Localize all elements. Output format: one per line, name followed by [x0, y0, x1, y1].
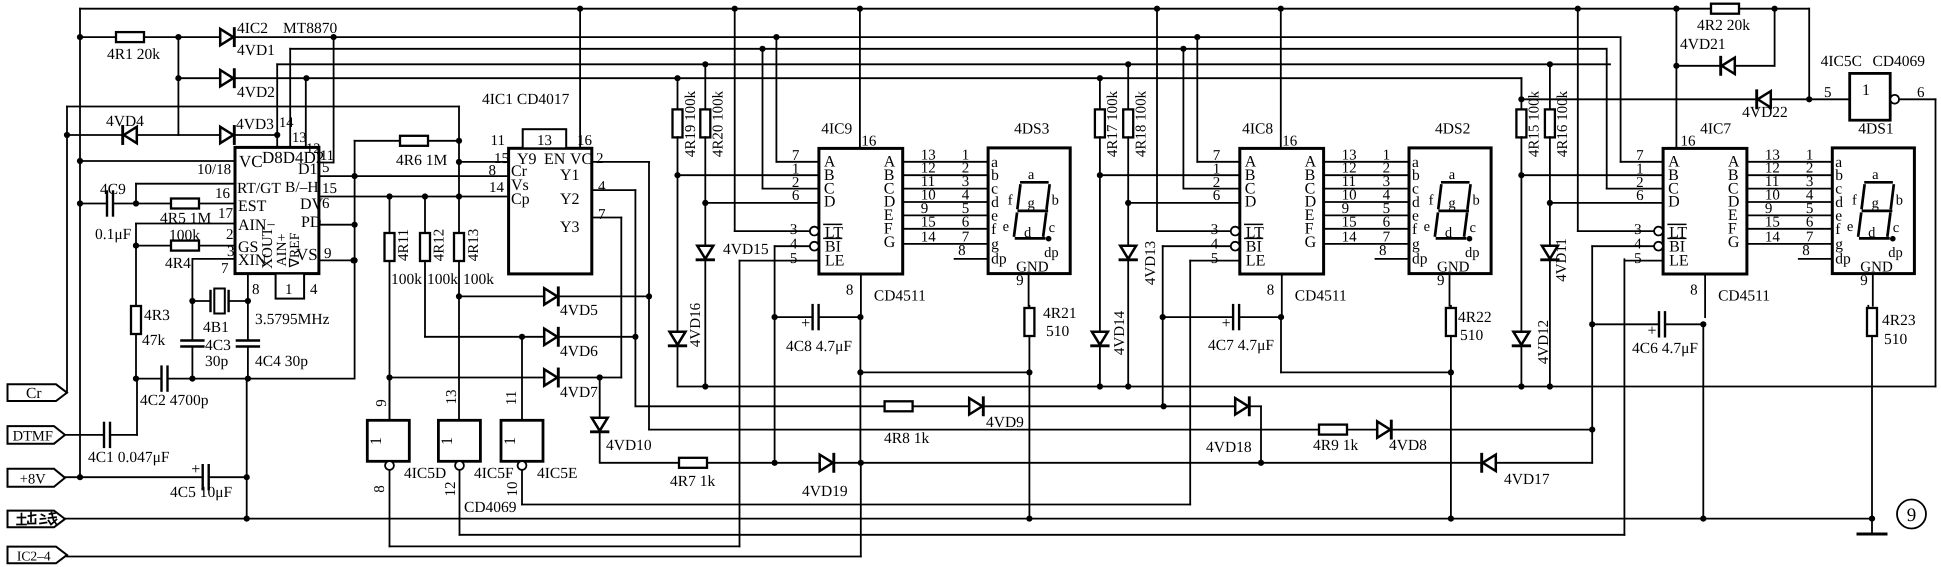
wire Cr vertical x=67 — [66, 107, 68, 393]
svg-text:B/–H: B/–H — [285, 179, 319, 196]
diode 4VD4 — [124, 127, 137, 143]
svg-text:4R17 100k: 4R17 100k — [1105, 90, 1121, 157]
svg-text:100k: 100k — [169, 227, 200, 244]
wire BI col bottom segment (4IC7) — [1591, 430, 1593, 463]
svg-text:6: 6 — [962, 214, 970, 230]
svg-text:0.1μF: 0.1μF — [95, 226, 132, 243]
svg-text:14: 14 — [1765, 229, 1781, 245]
svg-text:1: 1 — [502, 437, 519, 445]
wire column x=459 — [458, 107, 460, 197]
svg-text:4VD4: 4VD4 — [106, 113, 144, 130]
4IC7 LT BI bubbles — [1654, 227, 1663, 236]
wire bus line L1 (VCC rail, y=8.7) — [80, 8, 1809, 10]
resistor 4R2 — [1711, 4, 1739, 14]
resistor 4R11 — [389, 197, 391, 234]
4DS2 GND pin9 wire — [1449, 274, 1451, 306]
wire y=462.8 line — [601, 462, 820, 464]
svg-text:a: a — [1449, 167, 1456, 183]
svg-text:+8V: +8V — [20, 471, 46, 487]
svg-text:4VD10: 4VD10 — [606, 437, 652, 454]
svg-text:4DS2: 4DS2 — [1435, 121, 1470, 138]
svg-text:LE: LE — [1669, 253, 1689, 270]
svg-text:13: 13 — [444, 390, 460, 405]
4IC8 VC riser pin16 — [1280, 9, 1282, 149]
svg-text:4R5 1M: 4R5 1M — [160, 210, 211, 227]
wire 4VD3/4VD4 row y=135 — [67, 134, 123, 136]
4IC7 dp stub pin8 — [1799, 258, 1833, 260]
wire 4C7 line — [1160, 314, 1166, 320]
svg-text:4R9 1k: 4R9 1k — [1313, 437, 1358, 454]
wire 4IC5C output — [1899, 98, 1935, 100]
svg-text:8: 8 — [372, 485, 388, 493]
wire y=106.5 line — [67, 106, 459, 108]
svg-text:+: + — [801, 315, 810, 332]
svg-text:dp: dp — [1465, 245, 1480, 261]
svg-text:7: 7 — [598, 207, 606, 223]
svg-text:4C4 30p: 4C4 30p — [255, 353, 308, 370]
resistor 4R18 column — [1127, 64, 1129, 109]
svg-text:8: 8 — [846, 283, 854, 299]
4IC7 VC riser pin16 — [1675, 9, 1677, 149]
diode 4VD7 — [390, 377, 545, 379]
svg-text:15: 15 — [322, 181, 337, 197]
svg-text:Cp: Cp — [511, 191, 530, 208]
4DS3 7-segment digit — [1021, 181, 1047, 184]
svg-text:dp: dp — [1044, 245, 1059, 261]
op-amp 4IC8 CD4511 chip body — [1240, 148, 1324, 274]
svg-text:DV: DV — [300, 196, 324, 213]
wire Cr pin15 wire — [459, 161, 509, 163]
wire oscillator/VS ground line y=378.6 — [136, 378, 161, 380]
capacitor 4C4 — [247, 301, 249, 340]
4IC9 VC riser pin16 — [859, 9, 861, 149]
capacitor 4C3 — [191, 301, 193, 340]
capacitor 4C2 — [160, 367, 162, 391]
svg-text:4VD21: 4VD21 — [1680, 36, 1726, 53]
svg-text:c: c — [1893, 220, 1899, 236]
svg-text:4C6 4.7μF: 4C6 4.7μF — [1632, 340, 1698, 357]
capacitor 4C7 — [1232, 305, 1234, 329]
svg-text:16: 16 — [215, 186, 231, 202]
diode 4VD22 — [1758, 91, 1771, 107]
svg-text:4R19 100k: 4R19 100k — [683, 90, 699, 157]
svg-text:2: 2 — [226, 227, 234, 243]
svg-text:c: c — [1049, 220, 1055, 236]
svg-text:4VD2: 4VD2 — [237, 84, 275, 101]
4IC8 LT wire — [1157, 230, 1231, 232]
svg-text:9: 9 — [374, 399, 390, 407]
resistor 4R1 — [116, 32, 144, 42]
wire AIN- — [136, 223, 235, 225]
svg-text:3.5795MHz: 3.5795MHz — [255, 311, 330, 328]
svg-text:4VD14: 4VD14 — [1112, 310, 1128, 355]
inverter gate 4IC5D — [389, 378, 391, 421]
4IC9 LT wire — [735, 230, 810, 232]
svg-text:D1: D1 — [298, 161, 318, 178]
svg-text:6: 6 — [1636, 188, 1644, 204]
ground symbol — [1871, 519, 1873, 534]
wire line y=504.5 (to 4IC8 LE) — [522, 504, 1190, 506]
wire DTMF to 4C1 — [65, 434, 104, 436]
svg-text:4IC5E: 4IC5E — [537, 465, 577, 482]
4IC9 LT BI bubbles — [810, 227, 819, 236]
svg-text:13: 13 — [537, 133, 552, 149]
svg-text:CD4511: CD4511 — [1718, 288, 1770, 305]
4IC7 output wires to display — [1747, 161, 1832, 163]
svg-text:4R2 20k: 4R2 20k — [1697, 17, 1750, 34]
resistor 4R4 — [136, 245, 171, 247]
diode 4VD5 — [456, 293, 462, 299]
svg-text:4R3: 4R3 — [144, 307, 170, 324]
svg-text:100k: 100k — [427, 271, 458, 288]
wire IC2-4 line y=556.5 — [67, 556, 861, 558]
resistor 4R23 — [1867, 306, 1869, 308]
wire 4C5 ground column — [246, 379, 248, 519]
svg-text:2: 2 — [596, 151, 604, 167]
svg-text:b: b — [1052, 193, 1059, 209]
svg-text:4C7 4.7μF: 4C7 4.7μF — [1208, 337, 1274, 354]
wire bus line L2 (y=37.1) — [80, 36, 116, 38]
svg-text:8: 8 — [252, 282, 260, 298]
diode 4VD13 — [1127, 203, 1129, 246]
svg-text:G: G — [1728, 234, 1740, 251]
4IC8 output wires to display — [1324, 161, 1409, 163]
wire PD pin6 — [319, 224, 355, 226]
svg-text:9: 9 — [324, 246, 332, 262]
svg-text:8: 8 — [489, 163, 497, 179]
wire bus line L3 (y=48.8) — [290, 48, 1606, 50]
diode 4VD3 — [220, 127, 233, 143]
diode 4VD17 — [1483, 455, 1496, 471]
svg-text:4C3: 4C3 — [205, 337, 231, 354]
svg-text:IC2–4: IC2–4 — [17, 548, 51, 563]
svg-text:LE: LE — [1246, 253, 1266, 270]
svg-text:8: 8 — [958, 243, 966, 259]
svg-text:4R6 1M: 4R6 1M — [396, 152, 447, 169]
svg-text:4VD18: 4VD18 — [1206, 439, 1252, 456]
svg-text:4VD3: 4VD3 — [236, 116, 274, 133]
svg-text:4R20 100k: 4R20 100k — [711, 90, 727, 157]
capacitor 4C9 — [106, 192, 108, 216]
svg-text:5: 5 — [1634, 251, 1642, 267]
wire 4R8 line y=406.3 — [635, 405, 884, 407]
node IC2-4 input flag — [8, 547, 68, 564]
svg-text:G: G — [884, 234, 896, 251]
svg-text:17: 17 — [218, 206, 234, 222]
4IC8 BI wire — [1163, 245, 1231, 247]
4IC8 pin8 wire — [1281, 274, 1283, 317]
svg-text:4IC5F: 4IC5F — [474, 465, 514, 482]
svg-text:4VD6: 4VD6 — [560, 343, 598, 360]
svg-text:5: 5 — [790, 251, 798, 267]
svg-text:100k: 100k — [391, 271, 422, 288]
resistor 4R15 column — [1520, 78, 1522, 110]
svg-text:g: g — [1027, 196, 1034, 212]
wire rail y=386.5 — [678, 386, 1936, 388]
svg-text:15: 15 — [1765, 214, 1780, 230]
wire bus line L5 (y=78.2) — [178, 77, 221, 79]
wire 4IC5D output to y=546.4 — [389, 470, 391, 546]
svg-text:dp: dp — [1888, 245, 1903, 261]
wire L5 corner to 4R15 col — [1520, 78, 1522, 99]
diode 4VD14 — [1099, 175, 1101, 332]
svg-text:4VD19: 4VD19 — [802, 483, 848, 500]
svg-text:5: 5 — [1824, 85, 1832, 101]
wire 4IC5E output to y=504.5 — [521, 470, 523, 505]
svg-text:EST: EST — [238, 198, 267, 215]
op-amp 4IC1 CD4017 chip body — [509, 148, 592, 274]
resistor 4R21 — [1028, 306, 1030, 308]
svg-text:15: 15 — [921, 214, 936, 230]
wire +8V line to 4C5 — [80, 476, 203, 478]
svg-text:4VD13: 4VD13 — [1143, 241, 1159, 285]
svg-text:4VD16: 4VD16 — [688, 302, 704, 347]
wire ground bus y=518.6 — [65, 518, 1872, 520]
resistor 4R12 — [424, 197, 426, 234]
svg-text:8: 8 — [1690, 283, 1698, 299]
svg-text:14: 14 — [489, 180, 505, 196]
CD4017 VC riser x=580 — [579, 9, 581, 149]
4IC9 input wires A B C D — [776, 161, 819, 163]
wire line y=534.8 (to 4IC7 LE) — [460, 534, 1625, 536]
svg-text:b: b — [1473, 193, 1480, 209]
4IC7 input wires A B C D — [1621, 161, 1664, 163]
svg-text:4R7 1k: 4R7 1k — [670, 473, 715, 490]
svg-text:D: D — [1668, 194, 1680, 211]
svg-text:5: 5 — [1211, 251, 1219, 267]
capacitor 4C6 — [1658, 312, 1660, 336]
svg-text:9: 9 — [1860, 273, 1868, 289]
svg-text:b: b — [1896, 193, 1903, 209]
wire VS riser x=354.6 — [354, 260, 356, 378]
svg-text:d: d — [1024, 225, 1032, 241]
svg-text:e: e — [1424, 219, 1430, 235]
capacitor 4C8 — [811, 305, 813, 329]
wire +8V rail vertical x=80 — [79, 9, 81, 478]
wire D1 pin5 — [319, 175, 509, 177]
diode 4VD11 — [1549, 203, 1551, 246]
svg-text:g: g — [1448, 196, 1455, 212]
svg-text:4R23: 4R23 — [1882, 312, 1916, 329]
svg-text:4IC9: 4IC9 — [821, 121, 852, 138]
resistor 4R9 — [1319, 425, 1347, 435]
svg-text:1: 1 — [368, 437, 385, 445]
svg-text:VC: VC — [239, 152, 263, 171]
svg-text:4R22: 4R22 — [1458, 309, 1492, 326]
svg-text:4IC2: 4IC2 — [237, 20, 268, 37]
svg-text:LE: LE — [825, 253, 845, 270]
capacitor 4C5 — [201, 465, 203, 489]
svg-text:4IC7: 4IC7 — [1700, 121, 1731, 138]
node Cr input flag — [8, 384, 68, 401]
svg-text:13: 13 — [292, 130, 307, 146]
svg-text:6: 6 — [1383, 214, 1391, 230]
svg-text:4VD17: 4VD17 — [1504, 471, 1550, 488]
svg-text:d: d — [1445, 225, 1453, 241]
svg-text:4VD11: 4VD11 — [1554, 238, 1570, 282]
svg-text:4: 4 — [598, 179, 606, 195]
svg-text:4C9: 4C9 — [100, 181, 126, 198]
svg-text:dp: dp — [1412, 251, 1428, 268]
resistor 4R5 — [171, 199, 199, 209]
svg-text:4B1: 4B1 — [203, 319, 229, 336]
wire 4VD22 line — [1521, 98, 1757, 100]
svg-text:+: + — [191, 461, 200, 478]
svg-text:4C1 0.047μF: 4C1 0.047μF — [88, 449, 170, 466]
svg-text:4DS3: 4DS3 — [1014, 121, 1050, 138]
resistor 4R8 — [885, 401, 913, 411]
svg-text:4DS1: 4DS1 — [1858, 121, 1893, 138]
wire XOUT pin8 — [247, 274, 249, 301]
svg-text:f: f — [1852, 193, 1857, 209]
wire line y=546.4 (to 4IC9 LE) — [390, 545, 740, 547]
4IC7 LT wire — [1578, 230, 1654, 232]
svg-text:4R13: 4R13 — [466, 229, 482, 262]
svg-text:11: 11 — [504, 391, 520, 405]
svg-text:15: 15 — [494, 151, 509, 167]
svg-text:DTMF: DTMF — [13, 428, 53, 444]
svg-text:CD4511: CD4511 — [1295, 288, 1347, 305]
svg-text:Cr: Cr — [26, 385, 42, 402]
wire 4R9 line y=429.6 — [649, 429, 1319, 431]
MT8870 bottom notch pin 1 — [276, 274, 305, 299]
node +8V input flag — [8, 469, 66, 487]
svg-text:4R12: 4R12 — [432, 229, 448, 262]
diode 4VD16 — [677, 175, 679, 332]
svg-text:1: 1 — [1862, 82, 1870, 99]
svg-text:∇REF: ∇REF — [288, 232, 303, 268]
svg-text:4R4: 4R4 — [165, 255, 191, 272]
diode 4VD10 — [599, 378, 601, 419]
svg-text:16: 16 — [861, 134, 877, 150]
CD4017 output Y1 pin2 route — [592, 161, 649, 163]
svg-text:100k: 100k — [463, 271, 494, 288]
svg-text:6: 6 — [322, 196, 330, 212]
4IC8 input wires A B C D — [1197, 161, 1240, 163]
svg-text:d: d — [1868, 225, 1876, 241]
wire XIN — [192, 258, 235, 260]
svg-text:4VD22: 4VD22 — [1742, 104, 1788, 121]
svg-text:9: 9 — [1016, 273, 1024, 289]
svg-text:Y1: Y1 — [560, 167, 580, 184]
4DS1 7-segment digit — [1866, 181, 1892, 184]
svg-text:4IC1 CD4017: 4IC1 CD4017 — [482, 91, 570, 108]
svg-text:CD4069: CD4069 — [1873, 53, 1926, 70]
svg-text:510: 510 — [1460, 327, 1484, 344]
svg-text:PD: PD — [301, 214, 321, 231]
svg-text:c: c — [1470, 220, 1476, 236]
diode 4VD6 — [425, 336, 544, 338]
svg-text:VC: VC — [570, 151, 592, 168]
CD4017 output Y3 pin7 route — [592, 217, 622, 219]
4IC7 pin8 wire — [1704, 274, 1706, 317]
diode 4VD15 — [704, 203, 706, 246]
svg-text:4IC5D: 4IC5D — [404, 465, 446, 482]
4IC9 LE wire — [740, 260, 819, 262]
4IC9 pin8 wire — [860, 274, 862, 317]
wire L1 end corner to 4VD22 line — [1808, 9, 1810, 100]
crystal 4B1 — [189, 298, 195, 304]
svg-text:4: 4 — [310, 282, 318, 298]
op-amp 4IC7 CD4511 chip body — [1663, 148, 1747, 274]
4IC7 BI wire — [1592, 245, 1654, 247]
svg-text:4VD8: 4VD8 — [1389, 437, 1427, 454]
svg-text:D: D — [824, 194, 836, 211]
svg-text:510: 510 — [1046, 323, 1070, 340]
4IC7 LE wire — [1624, 260, 1663, 262]
wire 4IC5F output to y=534.8 — [459, 470, 461, 535]
wire vertical x=178.4 — [177, 37, 179, 135]
svg-text:14: 14 — [279, 115, 294, 131]
diode 4VD2 — [220, 70, 233, 86]
svg-text:+: + — [1648, 322, 1657, 339]
svg-text:8: 8 — [1802, 243, 1810, 259]
diode 4VD9 — [969, 398, 982, 414]
resistor 4R22 — [1450, 306, 1452, 308]
wire B/-H pin15 to Cp — [319, 196, 509, 198]
wire BI column to 429.6 — [1591, 324, 1593, 429]
node DTMF input flag — [8, 426, 66, 444]
wire Cp line dots (4R11-13 tops) — [386, 193, 392, 199]
svg-text:4VD7: 4VD7 — [560, 384, 598, 401]
svg-text:Y3: Y3 — [560, 219, 580, 236]
MT8870 top pin wires D8 D4 D2 — [276, 64, 278, 147]
svg-text:4R18 100k: 4R18 100k — [1134, 90, 1150, 157]
svg-text:+: + — [1222, 315, 1231, 332]
svg-text:14: 14 — [921, 229, 937, 245]
diode 4VD8 — [1377, 421, 1390, 437]
capacitor 4C1 — [103, 423, 105, 447]
svg-text:6: 6 — [1806, 214, 1814, 230]
svg-text:4R15 100k: 4R15 100k — [1527, 90, 1543, 157]
diode 4VD18 — [1235, 398, 1248, 414]
wire BI column to 406.3 — [1162, 317, 1164, 406]
svg-text:dp: dp — [991, 251, 1007, 268]
wire node column x=354.6 — [354, 141, 356, 261]
svg-text:e: e — [1003, 219, 1009, 235]
svg-text:4R16 100k: 4R16 100k — [1555, 90, 1571, 157]
svg-text:RT/GT: RT/GT — [237, 180, 281, 197]
4IC8 LE wire — [1190, 260, 1240, 262]
resistor 4R13 — [458, 197, 460, 234]
svg-text:4IC8: 4IC8 — [1242, 121, 1273, 138]
wire y=372.4 to 4R21 — [860, 371, 1029, 373]
svg-text:dp: dp — [1835, 251, 1851, 268]
svg-text:10/18: 10/18 — [197, 162, 231, 178]
svg-text:9: 9 — [1437, 273, 1445, 289]
4DS1 GND pin9 wire — [1872, 274, 1874, 306]
svg-text:4R1 20k: 4R1 20k — [107, 46, 160, 63]
resistor 4R6 — [355, 140, 400, 142]
svg-text:XOUT: XOUT — [260, 227, 276, 269]
inverter gate 4IC5F — [458, 419, 460, 421]
svg-text:4VD15: 4VD15 — [723, 241, 769, 258]
svg-text:f: f — [1008, 193, 1013, 209]
svg-text:9: 9 — [1907, 505, 1917, 526]
svg-text:7: 7 — [221, 261, 229, 277]
CD4017 output Y2 pin4 route — [592, 189, 636, 191]
display 4DS1 box — [1832, 148, 1914, 274]
inverter gate 4IC5E — [521, 337, 523, 421]
svg-text:510: 510 — [1884, 331, 1908, 348]
svg-text:11: 11 — [491, 133, 505, 149]
svg-text:1: 1 — [439, 437, 456, 445]
svg-text:4C8 4.7μF: 4C8 4.7μF — [786, 338, 852, 355]
svg-text:4IC5C: 4IC5C — [1821, 53, 1862, 70]
svg-text:4VD1: 4VD1 — [237, 42, 275, 59]
wire pin8 column — [859, 317, 861, 372]
svg-text:CD4511: CD4511 — [874, 288, 926, 305]
